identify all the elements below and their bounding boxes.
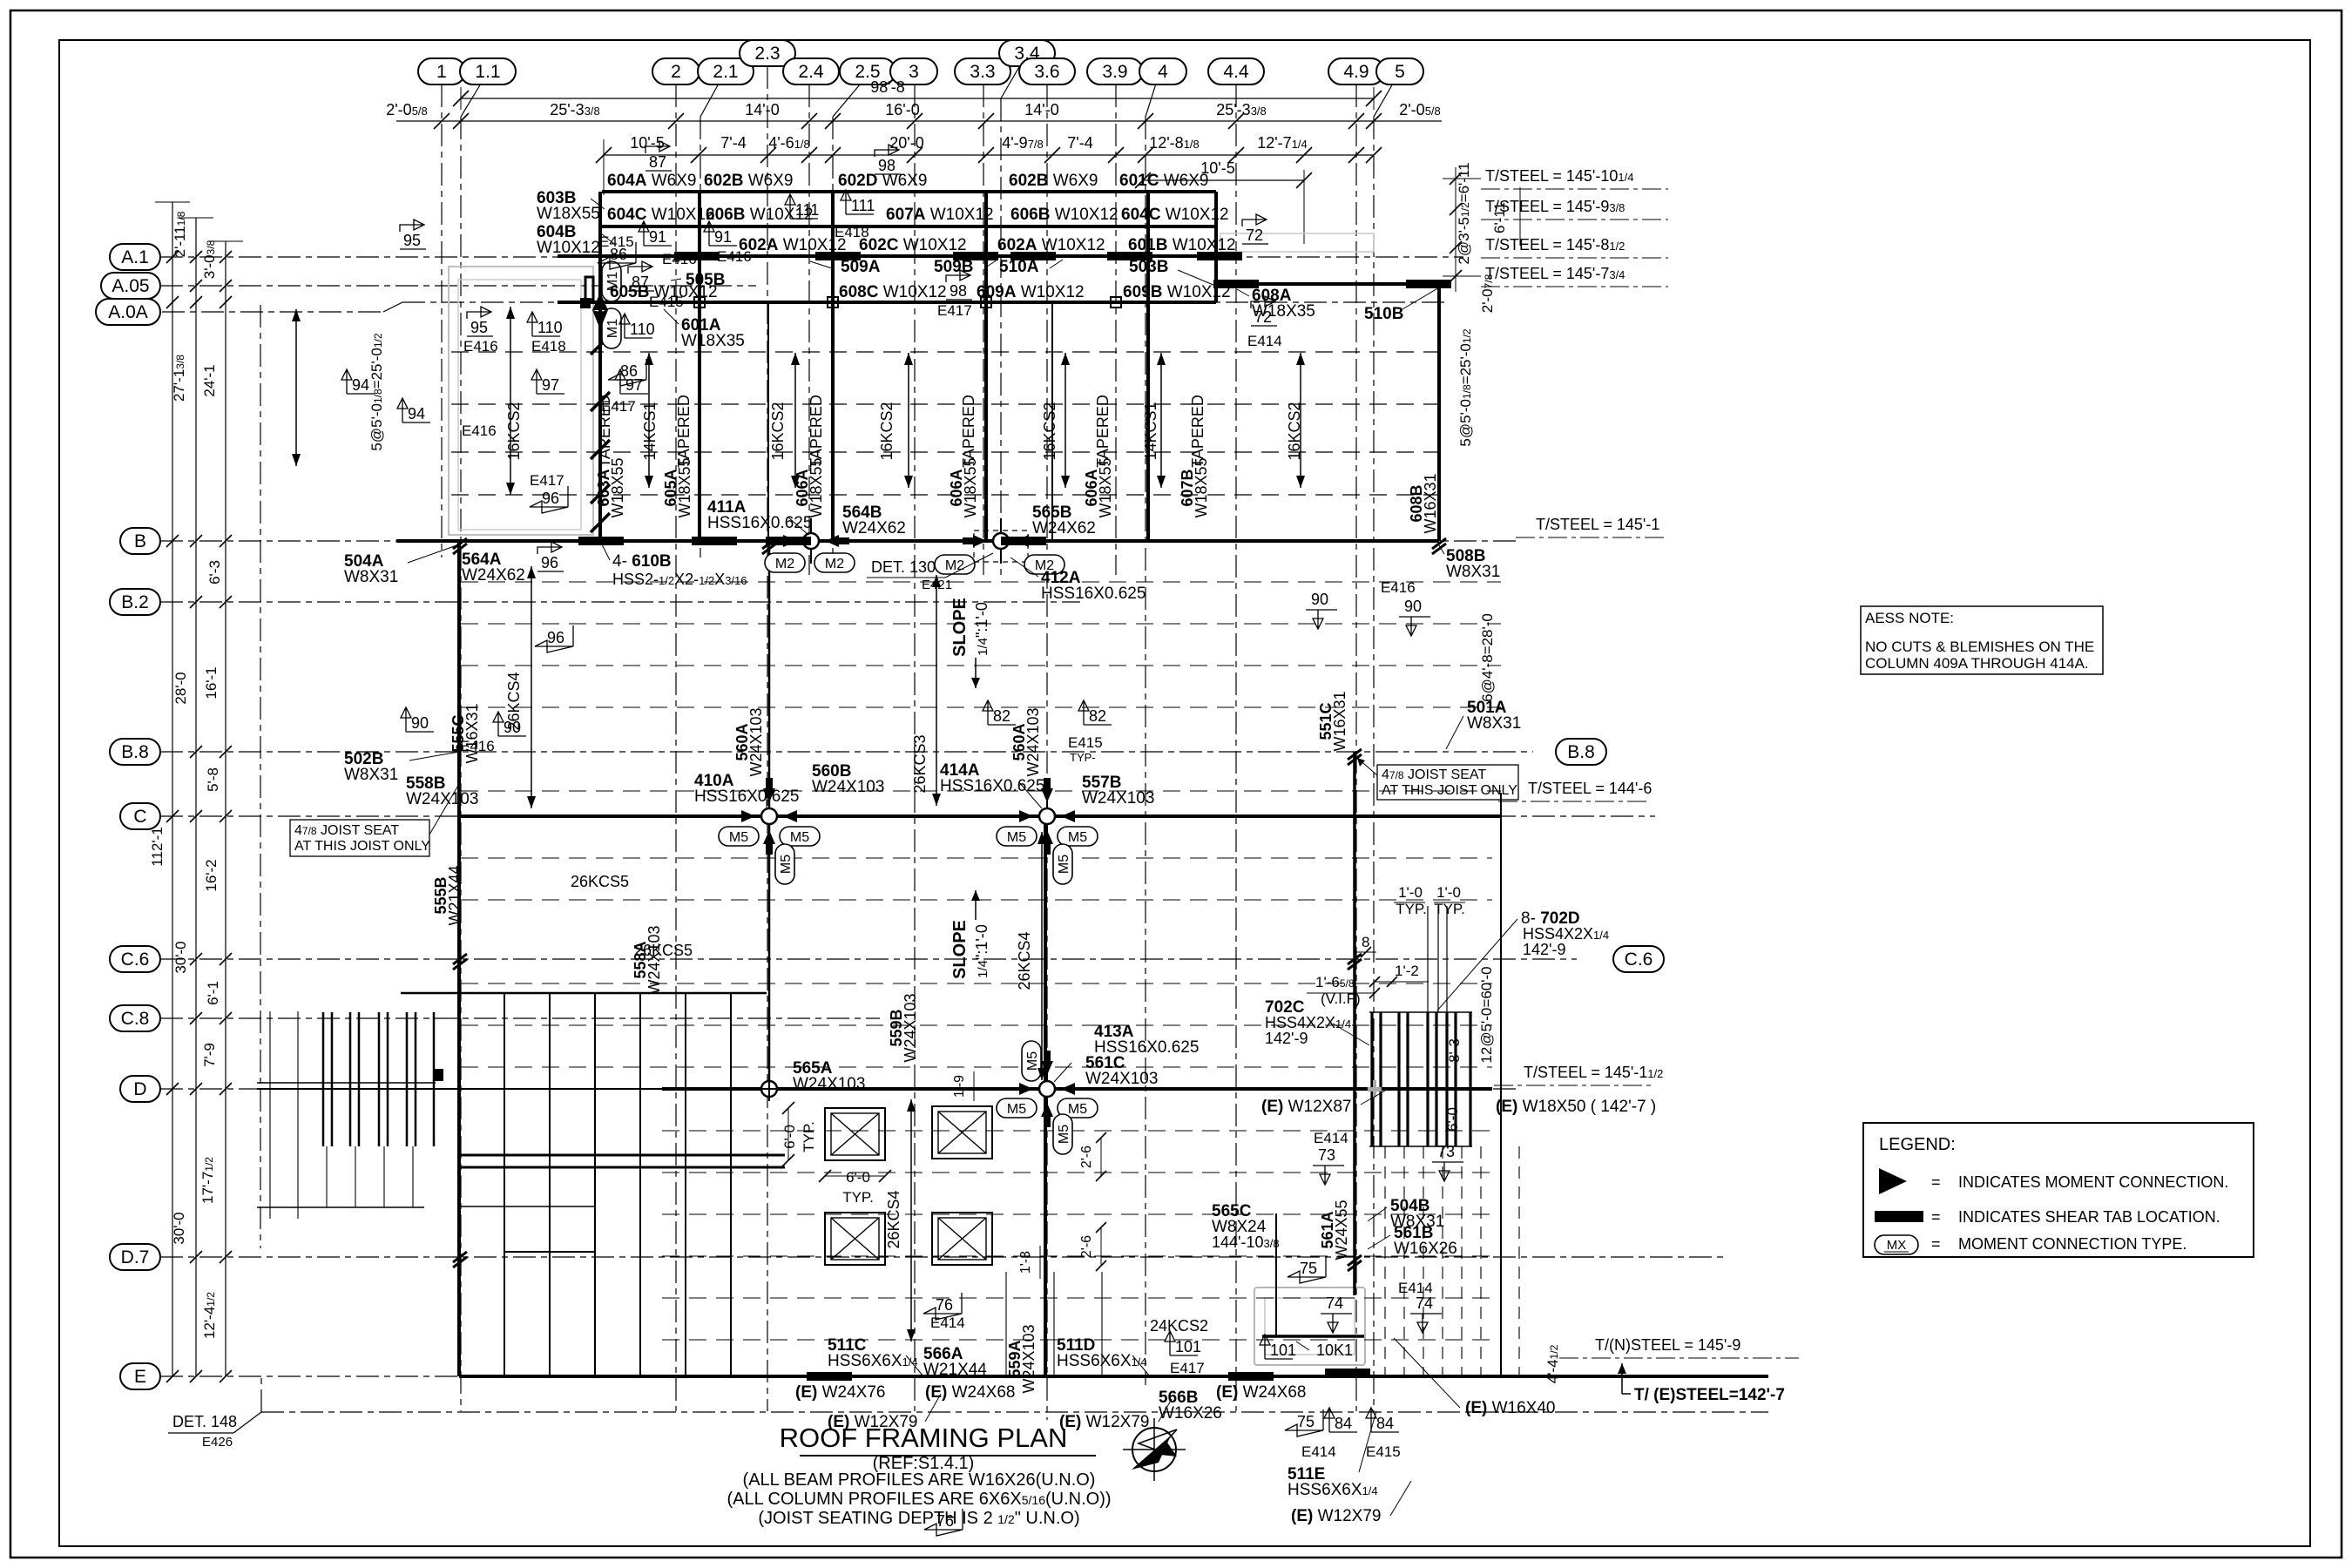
grid line 2.4: [783, 58, 839, 575]
svg-text:14KCS1: 14KCS1: [641, 402, 659, 460]
svg-text:W24X103: W24X103: [793, 1075, 865, 1093]
svg-text:6'-0: 6'-0: [846, 1169, 870, 1186]
beam y1326: [459, 1154, 785, 1157]
svg-text:E418: E418: [531, 338, 566, 355]
svg-text:5: 5: [1395, 62, 1405, 82]
svg-text:W24X103: W24X103: [1085, 1070, 1158, 1088]
grid line D: [120, 1076, 1516, 1102]
svg-text:(JOIST SEATING DEPTH IS 2 1/2": (JOIST SEATING DEPTH IS 2 1/2" U.N.O): [758, 1509, 1079, 1528]
svg-text:T/ (E)STEEL=142'-7: T/ (E)STEEL=142'-7: [1634, 1386, 1785, 1404]
column 510B x1652: [1437, 284, 1441, 541]
svg-text:4.4: 4.4: [1223, 62, 1249, 82]
gray box 10K1 area: [1254, 1288, 1365, 1365]
grid line A.0A: [96, 299, 1446, 325]
svg-text:M5: M5: [1057, 855, 1071, 874]
svg-text:602B W6X9: 602B W6X9: [1009, 172, 1098, 190]
column 559A x1200: [1044, 816, 1047, 1376]
svg-text:75: 75: [1300, 1260, 1317, 1277]
joint tick 528,624: [453, 538, 467, 549]
grid line 3: [890, 58, 937, 1411]
svg-text:(E) W18X50 ( 142'-7 ): (E) W18X50 ( 142'-7 ): [1496, 1098, 1656, 1116]
svg-text:26KCS5: 26KCS5: [634, 942, 693, 959]
svg-text:76: 76: [936, 1296, 953, 1314]
svg-text:T/STEEL = 145'-11/2: T/STEEL = 145'-11/2: [1524, 1064, 1663, 1081]
svg-text:101: 101: [1270, 1342, 1296, 1359]
left dimension chain lines: [155, 202, 243, 1382]
svg-text:E414: E414: [930, 1315, 965, 1331]
column x1396: [1214, 192, 1218, 302]
svg-text:MX: MX: [1887, 1238, 1907, 1253]
svg-text:1/4":1'-0: 1/4":1'-0: [973, 602, 990, 656]
dimension row bay widths: [386, 101, 1442, 129]
svg-text:C.6: C.6: [121, 950, 150, 970]
svg-text:110: 110: [537, 319, 563, 336]
svg-text:601B W10X12: 601B W10X12: [1128, 236, 1236, 254]
tapered edge hash ticks: [591, 335, 610, 532]
svg-text:47/8 JOIST SEAT: 47/8 JOIST SEAT: [1382, 767, 1486, 782]
svg-text:M5: M5: [1068, 1102, 1087, 1117]
svg-text:E416: E416: [463, 338, 498, 355]
column x956: [831, 192, 835, 541]
svg-text:90: 90: [504, 719, 521, 736]
joist seat note left: [290, 820, 429, 856]
svg-text:E416: E416: [662, 251, 697, 267]
beam 605B row grid A.0A: [558, 301, 1216, 304]
svg-text:AT THIS JOIST ONLY: AT THIS JOIST ONLY: [294, 839, 430, 854]
svg-text:1'-9: 1'-9: [952, 1075, 967, 1098]
svg-text:SLOPE: SLOPE: [950, 598, 970, 657]
grid line C: [120, 803, 1655, 829]
svg-text:(E) W24X68: (E) W24X68: [1216, 1383, 1306, 1402]
svg-text:503B: 503B: [1129, 258, 1168, 276]
legend box: [1863, 1123, 2254, 1257]
svg-text:111: 111: [851, 197, 875, 214]
svg-text:98: 98: [950, 282, 967, 300]
dimension 98'-8 overall: [453, 78, 1382, 110]
svg-text:W8X31: W8X31: [1467, 714, 1521, 733]
tag M5 node414A: [997, 827, 1037, 846]
svg-text:(E) W12X79: (E) W12X79: [1291, 1507, 1381, 1525]
svg-text:MOMENT CONNECTION TYPE.: MOMENT CONNECTION TYPE.: [1958, 1235, 2186, 1253]
svg-text:601C W6X9: 601C W6X9: [1119, 172, 1208, 190]
node 413A: [1019, 1051, 1075, 1127]
grid line B: [120, 528, 1516, 554]
grid line B.8: [110, 739, 1533, 765]
svg-text:W18X55: W18X55: [1097, 457, 1114, 517]
svg-text:HSS6X6X1/4: HSS6X6X1/4: [1057, 1352, 1147, 1370]
svg-text:T/STEEL = 145'-101/4: T/STEEL = 145'-101/4: [1485, 167, 1633, 185]
column right x1723: [1500, 793, 1502, 1376]
svg-text:HSS16X0.625: HSS16X0.625: [940, 777, 1044, 795]
shear tab 820,621: [692, 537, 737, 545]
svg-text:T/(N)STEEL = 145'-9: T/(N)STEEL = 145'-9: [1595, 1336, 1740, 1354]
svg-text:28'-0: 28'-0: [172, 672, 189, 704]
svg-text:M5: M5: [1068, 830, 1087, 845]
svg-text:90: 90: [411, 714, 429, 732]
svg-text:HSS6X6X1/4: HSS6X6X1/4: [828, 1352, 918, 1370]
gray existing outline upper left: [449, 267, 593, 535]
svg-text:4: 4: [1158, 62, 1168, 82]
svg-text:12@5'-0=60'-0: 12@5'-0=60'-0: [1478, 966, 1495, 1063]
grid line 4: [1139, 58, 1186, 1385]
svg-text:72: 72: [1254, 308, 1272, 326]
grid line 2: [652, 58, 700, 1411]
svg-text:E414: E414: [1301, 1443, 1336, 1460]
svg-text:97: 97: [625, 376, 643, 394]
svg-text:110: 110: [630, 321, 655, 338]
left block boundary dashdot: [260, 305, 261, 1248]
node 412A: [963, 518, 1039, 564]
svg-text:W18X55: W18X55: [962, 457, 979, 517]
svg-text:609A W10X12: 609A W10X12: [977, 283, 1085, 301]
svg-text:142'-9: 142'-9: [1265, 1030, 1308, 1047]
svg-text:W18X55: W18X55: [1193, 457, 1210, 517]
svg-text:1'-0: 1'-0: [1398, 884, 1423, 901]
svg-text:=: =: [1931, 1208, 1941, 1226]
grid bubble C.6 right: [1613, 946, 1664, 972]
svg-text:E417: E417: [1170, 1360, 1205, 1376]
svg-text:602A W10X12: 602A W10X12: [997, 236, 1105, 254]
beam grid E: [459, 1375, 1768, 1378]
svg-text:W18X35: W18X35: [681, 332, 745, 350]
svg-text:C: C: [133, 807, 146, 827]
svg-text:10K1: 10K1: [1316, 1342, 1353, 1359]
column x1208: [1051, 302, 1053, 541]
svg-text:14'-0: 14'-0: [1024, 101, 1058, 118]
bottom joists right of boxes: [1006, 1272, 1102, 1376]
svg-text:T/STEEL = 145'-73/4: T/STEEL = 145'-73/4: [1485, 265, 1625, 282]
svg-text:W18X55: W18X55: [808, 457, 825, 517]
beam 564A grid B: [396, 539, 1439, 543]
span arrow 26KCS4 c: [910, 1099, 912, 1342]
svg-text:3: 3: [909, 62, 919, 82]
AESS note box: [1861, 606, 2103, 674]
shear tab 1436,1580: [1228, 1372, 1274, 1381]
svg-text:W18X55: W18X55: [537, 205, 600, 223]
bracket symbol: [585, 277, 593, 300]
tapered band joist dashes: [451, 352, 1437, 495]
grid line 2.5: [833, 58, 896, 558]
svg-text:91: 91: [649, 228, 666, 246]
svg-text:98'-8: 98'-8: [870, 78, 904, 96]
svg-text:84: 84: [1376, 1415, 1394, 1432]
tag M1 pair: [602, 261, 621, 301]
svg-text:6'-1: 6'-1: [205, 981, 221, 1005]
702D hanger lines: [1385, 906, 1519, 1376]
svg-text:E415: E415: [1366, 1443, 1401, 1460]
svg-text:A.05: A.05: [112, 276, 149, 296]
svg-text:E426: E426: [202, 1435, 233, 1450]
svg-text:94: 94: [408, 405, 425, 422]
grid line 5: [1374, 58, 1423, 1411]
svg-text:W24X103: W24X103: [902, 993, 919, 1062]
hatch block 702C joists: [1369, 1012, 1472, 1146]
svg-text:W24X62: W24X62: [1032, 519, 1096, 537]
svg-text:E417: E417: [937, 302, 972, 319]
svg-text:E416: E416: [1381, 579, 1416, 596]
svg-text:E415: E415: [599, 233, 634, 250]
svg-text:E415: E415: [649, 294, 684, 310]
grid line 4.9: [1328, 58, 1384, 1411]
svg-text:2: 2: [671, 62, 681, 82]
svg-text:94: 94: [352, 376, 369, 394]
svg-text:E414: E414: [1247, 333, 1282, 349]
plan joist dashed rows: [461, 582, 1501, 1340]
svg-text:16KCS2: 16KCS2: [769, 402, 787, 460]
svg-text:30'-0: 30'-0: [171, 1212, 187, 1244]
svg-text:111: 111: [795, 201, 819, 219]
joist 10K1: [1262, 1335, 1364, 1338]
svg-text:87: 87: [649, 153, 666, 171]
svg-text:E416: E416: [717, 248, 752, 265]
svg-text:T/STEEL = 145'-1: T/STEEL = 145'-1: [1536, 516, 1659, 533]
svg-text:M1: M1: [605, 319, 620, 338]
grid line D.7: [110, 1244, 1725, 1270]
svg-text:5'-8: 5'-8: [205, 767, 221, 792]
svg-text:1'-2: 1'-2: [1395, 963, 1419, 979]
svg-text:LEGEND:: LEGEND:: [1879, 1135, 1956, 1154]
svg-text:16'-0: 16'-0: [885, 101, 919, 118]
shear tab 1419,326: [1213, 280, 1259, 288]
svg-text:DET. 130: DET. 130: [871, 558, 936, 576]
svg-text:W24X62: W24X62: [462, 566, 525, 585]
grid line 1.1: [460, 58, 516, 1411]
T/(E)STEEL 142-7: [1618, 1363, 1785, 1404]
shear tab 952,1580: [807, 1372, 852, 1381]
shear tab 962,294: [815, 252, 861, 260]
svg-text:2'-6: 2'-6: [1079, 1235, 1094, 1258]
joint tick 883,624: [762, 538, 776, 549]
roof opening box 1: [825, 1108, 885, 1160]
svg-text:W10X12: W10X12: [537, 239, 600, 257]
svg-text:2.4: 2.4: [798, 62, 824, 82]
node 410A: [741, 778, 797, 855]
svg-text:T/STEEL = 145'-93/8: T/STEEL = 145'-93/8: [1485, 198, 1625, 215]
svg-text:26KCS4: 26KCS4: [885, 1190, 902, 1248]
roof opening box 3: [825, 1213, 885, 1265]
svg-text:W24X103: W24X103: [406, 790, 478, 808]
svg-text:HSS16X0.625: HSS16X0.625: [1041, 585, 1146, 603]
tag M2 node412A: [935, 555, 975, 574]
svg-text:TYP.: TYP.: [1396, 901, 1427, 917]
svg-text:W24X103: W24X103: [1082, 789, 1154, 808]
svg-text:W24X103: W24X103: [812, 778, 884, 796]
svg-text:101: 101: [1175, 1338, 1201, 1355]
svg-text:602B W6X9: 602B W6X9: [704, 172, 793, 190]
svg-text:609B W10X12: 609B W10X12: [1123, 283, 1231, 301]
joint tick 1555,1447: [1348, 1255, 1362, 1266]
shear tab 1186,294: [1010, 252, 1056, 260]
svg-text:7'-9: 7'-9: [201, 1043, 218, 1067]
svg-text:26KCS4: 26KCS4: [1016, 931, 1033, 990]
svg-text:24KCS2: 24KCS2: [1150, 1317, 1208, 1335]
span arrow 26KCS4 a: [531, 566, 532, 808]
svg-text:6'-3: 6'-3: [206, 560, 223, 585]
shear tab 800,294: [674, 252, 720, 260]
svg-text:HSS16X0.625: HSS16X0.625: [694, 787, 799, 806]
svg-text:M5: M5: [1007, 1102, 1026, 1117]
joint tick 1652,624: [1432, 538, 1446, 549]
svg-text:TAPERED: TAPERED: [1189, 395, 1206, 468]
svg-text:HSS6X6X1/4: HSS6X6X1/4: [1288, 1481, 1378, 1499]
small square 1132,347: [981, 297, 991, 308]
triangle up A05: [592, 293, 608, 310]
beam 604A row: [602, 190, 1216, 193]
svg-text:M5: M5: [790, 830, 809, 845]
grid bubble B.8 right: [1556, 739, 1606, 765]
beam 565A grid D: [257, 1088, 662, 1090]
svg-text:142'-9: 142'-9: [1523, 941, 1565, 958]
gray strip top right: [1220, 233, 1374, 252]
dimension 10'-5 right: [1135, 159, 1312, 244]
svg-text:16KCS2: 16KCS2: [505, 402, 523, 460]
svg-text:W8X31: W8X31: [1446, 563, 1500, 581]
svg-text:W16X31: W16X31: [1331, 691, 1348, 751]
svg-text:HSS16X0.625: HSS16X0.625: [707, 514, 812, 532]
svg-text:E417: E417: [530, 472, 564, 489]
shear tab 690,621: [578, 537, 624, 545]
svg-text:30'-0: 30'-0: [172, 941, 189, 973]
svg-text:3.6: 3.6: [1034, 62, 1059, 82]
svg-text:W24X103: W24X103: [1020, 1324, 1037, 1393]
shear tab 1175,621: [1001, 537, 1046, 545]
svg-text:24'-1: 24'-1: [201, 364, 218, 396]
svg-text:W21X44: W21X44: [446, 865, 463, 925]
column 551B x1555: [1353, 752, 1356, 1295]
gray H mark: [1368, 1087, 1382, 1092]
node 414A: [1019, 778, 1075, 855]
svg-text:95: 95: [470, 319, 488, 336]
grid line 3.6: [1019, 58, 1075, 1420]
svg-text:82: 82: [1089, 707, 1106, 725]
svg-text:16KCS2: 16KCS2: [878, 402, 896, 460]
svg-text:607A W10X12: 607A W10X12: [886, 206, 994, 224]
svg-text:26KCS5: 26KCS5: [571, 873, 629, 890]
roof opening box 2: [932, 1106, 992, 1159]
svg-text:ROOF FRAMING PLAN: ROOF FRAMING PLAN: [780, 1423, 1068, 1453]
svg-text:DET. 148: DET. 148: [172, 1413, 237, 1430]
svg-text:W16X26: W16X26: [1394, 1240, 1457, 1258]
tag M2 node411A: [765, 553, 805, 572]
svg-text:=: =: [1931, 1173, 1941, 1191]
svg-text:82: 82: [993, 707, 1010, 725]
svg-text:M5: M5: [729, 830, 748, 845]
small square 1281,347: [1111, 297, 1121, 308]
svg-text:B: B: [134, 531, 146, 551]
svg-text:47/8 JOIST SEAT: 47/8 JOIST SEAT: [294, 823, 399, 838]
svg-text:6@4'-8=28'-0: 6@4'-8=28'-0: [1479, 613, 1496, 702]
svg-text:W24X62: W24X62: [842, 519, 906, 537]
svg-text:606B W10X12: 606B W10X12: [1010, 206, 1119, 224]
svg-text:TYP-: TYP-: [1070, 751, 1096, 764]
svg-text:M5: M5: [779, 855, 794, 874]
svg-text:26KCS3: 26KCS3: [911, 734, 929, 793]
svg-text:14KCS1: 14KCS1: [1142, 402, 1159, 460]
grid line 3.9: [1087, 58, 1143, 575]
svg-text:602C W10X12: 602C W10X12: [859, 236, 967, 254]
svg-text:14'-0: 14'-0: [745, 101, 779, 118]
svg-text:E418: E418: [835, 224, 869, 240]
svg-text:90: 90: [1404, 598, 1422, 615]
svg-text:INDICATES SHEAR TAB LOCATION.: INDICATES SHEAR TAB LOCATION.: [1958, 1208, 2220, 1226]
bottom dashdot boundary: [261, 1411, 1768, 1413]
svg-text:2'-6: 2'-6: [1079, 1146, 1094, 1168]
svg-text:604C W10X12: 604C W10X12: [1121, 206, 1229, 224]
svg-text:W24X103: W24X103: [1024, 707, 1042, 776]
svg-text:E417: E417: [601, 398, 636, 415]
beam top edge center field: [401, 992, 767, 995]
svg-text:T/STEEL = 145'-81/2: T/STEEL = 145'-81/2: [1485, 236, 1625, 253]
tag M5 node410A: [719, 827, 759, 846]
grid line 2.3: [740, 40, 795, 1411]
svg-text:96: 96: [541, 554, 558, 571]
svg-text:1/4":1'-0: 1/4":1'-0: [973, 924, 990, 978]
svg-text:604A W6X9: 604A W6X9: [607, 172, 696, 190]
svg-text:M5: M5: [1025, 1051, 1040, 1071]
shear tab 1400,294: [1197, 252, 1242, 260]
column 560A x883: [768, 541, 771, 1089]
svg-text:98: 98: [878, 157, 896, 174]
svg-text:M2: M2: [945, 558, 964, 573]
svg-text:(E) W24X76: (E) W24X76: [795, 1383, 885, 1402]
svg-text:72: 72: [1246, 226, 1263, 244]
svg-text:16'-1: 16'-1: [203, 666, 220, 699]
dimension row sub widths: [596, 134, 1382, 195]
svg-text:3.3: 3.3: [970, 62, 995, 82]
span arrow 26KCS3: [936, 575, 937, 806]
north arrow: [1132, 1428, 1176, 1471]
node 565A circle: [761, 1081, 777, 1097]
column grid2.1 x802: [698, 192, 701, 541]
svg-text:1.1: 1.1: [475, 62, 500, 82]
svg-text:W18X55: W18X55: [609, 457, 626, 517]
shear tab 1640,326: [1406, 280, 1451, 288]
svg-text:W18X55: W18X55: [676, 457, 693, 517]
svg-text:75: 75: [1297, 1413, 1315, 1430]
svg-text:=: =: [1931, 1235, 1941, 1253]
grid line C.8: [110, 1005, 880, 1031]
svg-text:90: 90: [1311, 591, 1328, 608]
svg-text:TAPERED: TAPERED: [808, 395, 825, 468]
svg-text:8: 8: [1362, 934, 1369, 950]
beam 608A W18X35: [1216, 282, 1439, 286]
span arrow 26KCS4 b: [1041, 832, 1043, 1080]
svg-text:(ALL BEAM PROFILES ARE W16X26(: (ALL BEAM PROFILES ARE W16X26(U.N.O): [743, 1470, 1096, 1490]
svg-text:608C W10X12: 608C W10X12: [839, 283, 947, 301]
column x1132: [984, 192, 988, 541]
svg-text:E: E: [134, 1367, 146, 1387]
svg-text:B.2: B.2: [121, 592, 149, 612]
beam y1340: [459, 1166, 785, 1169]
shear tab 905,621: [766, 537, 811, 545]
column x1318: [1146, 192, 1150, 541]
right dim bracket lines: [1443, 167, 1520, 292]
svg-text:3.9: 3.9: [1102, 62, 1127, 82]
svg-text:TYP.: TYP.: [801, 1121, 817, 1152]
svg-text:16KCS2: 16KCS2: [1041, 402, 1058, 460]
triangle down A0A: [592, 310, 608, 329]
svg-text:510A: 510A: [999, 258, 1039, 276]
svg-text:(E) W24X68: (E) W24X68: [925, 1383, 1015, 1402]
svg-text:4- 610B: 4- 610B: [612, 552, 672, 571]
small square 956,347: [828, 297, 838, 308]
shear tab 1297,294: [1107, 252, 1152, 260]
svg-text:(ALL COLUMN PROFILES ARE 6X6X5: (ALL COLUMN PROFILES ARE 6X6X5/16(U.N.O)…: [727, 1490, 1111, 1509]
svg-text:T/STEEL = 144'-6: T/STEEL = 144'-6: [1528, 780, 1652, 797]
grid line C.6: [110, 946, 1577, 972]
left joist block hatch: [257, 1011, 443, 1219]
beam 558B grid C: [459, 814, 1501, 818]
